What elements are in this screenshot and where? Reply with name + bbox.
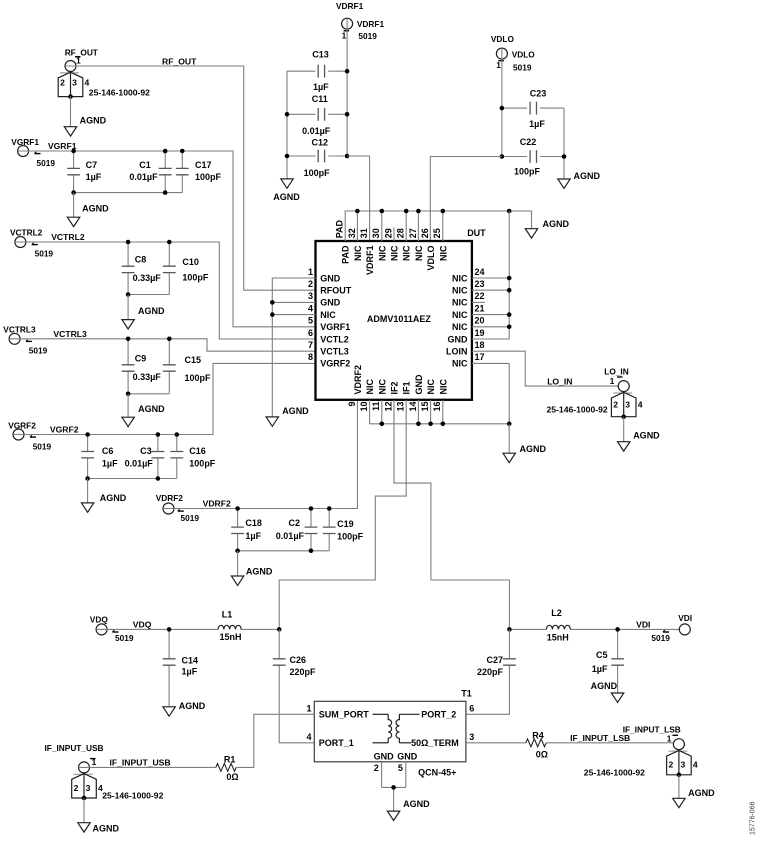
svg-text:VDLO: VDLO — [512, 50, 536, 60]
svg-text:VCTRL2: VCTRL2 — [10, 227, 43, 237]
svg-text:C11: C11 — [312, 94, 328, 104]
svg-text:C10: C10 — [182, 257, 199, 267]
ground AGND (VCTRL3 rail) — [122, 417, 134, 426]
svg-text:2: 2 — [60, 78, 65, 88]
svg-text:NIC: NIC — [426, 379, 436, 395]
svg-text:6: 6 — [308, 328, 313, 338]
capacitor C9 — [122, 365, 135, 371]
wire pin 14 stub — [417, 400, 419, 424]
svg-text:VCTRL2: VCTRL2 — [51, 232, 85, 242]
svg-text:0.01µF: 0.01µF — [125, 458, 154, 468]
svg-text:10: 10 — [359, 402, 369, 412]
wire VDLO gnd rail — [563, 108, 565, 179]
resistor R1 0ohm — [216, 764, 236, 772]
ground AGND (RF_OUT) — [64, 127, 76, 136]
wire net IF1 from pin 13 — [279, 400, 406, 629]
svg-text:NIC: NIC — [452, 359, 468, 369]
svg-text:5019: 5019 — [33, 442, 52, 452]
svg-text:5019: 5019 — [651, 633, 670, 643]
svg-text:NIC: NIC — [438, 379, 448, 395]
test point VDQ (5019) — [96, 624, 107, 635]
svg-text:3: 3 — [469, 732, 474, 742]
svg-text:AGND: AGND — [80, 115, 107, 125]
svg-text:0.01µF: 0.01µF — [302, 126, 331, 136]
svg-text:4: 4 — [693, 760, 698, 770]
capacitor C14 — [163, 659, 176, 665]
svg-text:VDLO: VDLO — [426, 246, 436, 271]
svg-text:L1: L1 — [222, 610, 233, 620]
junctions top bus — [355, 209, 511, 214]
svg-text:C5: C5 — [596, 650, 608, 660]
wire pin 4 NIC tie — [272, 314, 315, 316]
op-amp U1 DUT ADMV1011AEZ body — [316, 241, 472, 400]
svg-text:26: 26 — [420, 228, 430, 238]
svg-text:5019: 5019 — [37, 158, 56, 168]
svg-text:5: 5 — [308, 316, 313, 326]
ground AGND (IF_INPUT_USB) — [78, 823, 90, 832]
svg-text:VGRF2: VGRF2 — [50, 425, 79, 435]
svg-text:IF2: IF2 — [390, 381, 400, 394]
svg-text:GND: GND — [320, 273, 341, 283]
svg-text:5019: 5019 — [35, 249, 54, 259]
svg-text:C17: C17 — [195, 160, 212, 170]
svg-text:C8: C8 — [135, 255, 147, 265]
svg-text:19: 19 — [475, 328, 485, 338]
wire to AGND — [127, 394, 129, 417]
svg-text:AGND: AGND — [543, 219, 570, 229]
svg-text:AGND: AGND — [520, 444, 547, 454]
junctions VCTRL2 row — [126, 240, 172, 297]
svg-text:50Ω_TERM: 50Ω_TERM — [411, 738, 459, 748]
svg-text:1µF: 1µF — [529, 119, 545, 129]
wire VDLO to pin 26 — [430, 157, 502, 242]
wire VCTRL3 gnd rail — [128, 393, 169, 395]
svg-text:C16: C16 — [189, 446, 206, 456]
ground AGND (VDLO rail) — [558, 179, 570, 188]
wire shield to AGND — [83, 798, 85, 822]
svg-text:3: 3 — [86, 783, 91, 793]
ground AGND (top bus) — [525, 229, 537, 238]
wire to AGND — [87, 479, 89, 503]
svg-text:NIC: NIC — [452, 273, 468, 283]
wire C10 leads — [168, 242, 170, 295]
svg-text:NIC: NIC — [414, 245, 424, 261]
svg-text:20: 20 — [475, 316, 485, 326]
capacitor C18 — [231, 527, 244, 533]
svg-text:VDRF2: VDRF2 — [353, 365, 363, 395]
test point VDI (5019) — [679, 624, 690, 635]
svg-text:24: 24 — [475, 267, 485, 277]
wire C13 leads — [287, 70, 347, 72]
svg-text:NIC: NIC — [353, 245, 363, 261]
connector IF_INPUT_USB body — [72, 774, 97, 801]
wire net IF_INPUT_LSB — [546, 742, 674, 744]
svg-text:2: 2 — [74, 783, 79, 793]
svg-text:15nH: 15nH — [219, 632, 241, 642]
connector IF_INPUT_USB 25-146-1000-92 — [79, 762, 90, 773]
svg-text:PORT_2: PORT_2 — [421, 709, 456, 719]
wire bottom NIC bus — [370, 400, 510, 424]
svg-text:12: 12 — [383, 402, 393, 412]
svg-text:VDRF1: VDRF1 — [357, 19, 385, 29]
junctions VCTRL3 row — [126, 337, 172, 397]
inductor L1 15nH — [218, 625, 241, 629]
capacitor C8 — [122, 266, 135, 272]
resistor R4 0ohm — [526, 739, 546, 747]
svg-text:21: 21 — [475, 303, 485, 313]
ground AGND (VGRF2 rail) — [81, 503, 93, 512]
wire C15 leads — [168, 339, 170, 394]
wire pin 17 NIC to bottom bus — [472, 363, 509, 423]
wire net IF2 from pin 12 — [394, 400, 509, 629]
svg-text:9: 9 — [347, 402, 357, 407]
wire C12 leads — [287, 155, 347, 157]
capacitor C23 — [530, 102, 536, 115]
svg-text:AGND: AGND — [591, 681, 618, 691]
svg-text:1µF: 1µF — [245, 531, 261, 541]
wire C2 leads — [310, 509, 312, 551]
svg-text:100pF: 100pF — [337, 531, 364, 541]
wire C14 leads — [168, 629, 170, 706]
svg-text:NIC: NIC — [365, 379, 375, 395]
svg-text:C2: C2 — [288, 518, 300, 528]
ground AGND (IF_INPUT_LSB) — [673, 798, 685, 807]
svg-text:NIC: NIC — [320, 310, 336, 320]
wire VDRF2 gnd rail — [238, 550, 330, 552]
capacitor C15 — [163, 365, 176, 371]
junctions VDRF2 row — [235, 506, 331, 553]
svg-text:0.01µF: 0.01µF — [129, 172, 158, 182]
svg-text:C13: C13 — [312, 50, 329, 60]
svg-text:VDRF1: VDRF1 — [336, 1, 364, 11]
wire C26 to PORT_1 — [279, 629, 314, 742]
ground AGND (VDRF2 rail) — [231, 576, 243, 585]
svg-text:1µF: 1µF — [592, 664, 608, 674]
svg-text:AGND: AGND — [246, 567, 273, 577]
svg-text:IF_INPUT_LSB: IF_INPUT_LSB — [623, 724, 681, 734]
svg-text:RF_OUT: RF_OUT — [162, 56, 197, 66]
svg-text:220pF: 220pF — [290, 667, 317, 677]
svg-text:220pF: 220pF — [477, 667, 504, 677]
svg-text:AGND: AGND — [138, 404, 165, 414]
coil T1 right — [396, 714, 399, 743]
test point VCTRL2 (5019) — [15, 237, 26, 248]
wire pin 23 — [472, 289, 509, 291]
svg-text:32: 32 — [347, 228, 357, 238]
wire C5 leads — [617, 629, 619, 693]
svg-text:VDQ: VDQ — [133, 620, 152, 630]
svg-text:VDI: VDI — [678, 613, 692, 623]
coil T1 left — [388, 714, 391, 743]
svg-text:NIC: NIC — [402, 245, 412, 261]
svg-text:3: 3 — [72, 78, 77, 88]
svg-text:NIC: NIC — [452, 286, 468, 296]
wire net VDRF2 to pin 9 — [163, 400, 357, 509]
svg-text:R4: R4 — [532, 730, 544, 740]
svg-text:100pF: 100pF — [195, 172, 222, 182]
svg-text:5: 5 — [398, 763, 403, 773]
svg-text:C22: C22 — [520, 137, 537, 147]
ground AGND (VCTRL2 rail) — [122, 320, 134, 329]
svg-text:1µF: 1µF — [313, 82, 329, 92]
svg-text:0.33µF: 0.33µF — [133, 372, 162, 382]
capacitor C26 — [273, 659, 286, 665]
svg-text:C27: C27 — [486, 655, 503, 665]
svg-text:25: 25 — [432, 228, 442, 238]
wire C22 leads — [502, 156, 564, 158]
svg-text:31: 31 — [359, 228, 369, 238]
wire net VGRF2 to pin 8 — [13, 363, 315, 434]
wire pin 27 stub — [417, 211, 419, 241]
svg-text:T1: T1 — [461, 689, 472, 699]
svg-text:AGND: AGND — [633, 431, 660, 441]
svg-text:VDRF2: VDRF2 — [156, 493, 184, 503]
svg-text:15776-066: 15776-066 — [750, 801, 757, 835]
junctions GND rail — [270, 300, 275, 317]
wire C18 leads — [237, 509, 239, 551]
svg-text:VCTL3: VCTL3 — [320, 347, 349, 357]
capacitor C5 — [611, 659, 624, 665]
capacitor C22 — [530, 150, 536, 163]
svg-text:IF_INPUT_USB: IF_INPUT_USB — [45, 743, 104, 753]
test point VCTRL3 (5019) — [9, 333, 20, 344]
wire top NIC bus to AGND — [345, 211, 531, 241]
svg-text:NIC: NIC — [377, 379, 387, 395]
svg-text:1µF: 1µF — [182, 666, 198, 676]
wire C16 leads — [176, 435, 178, 479]
junctions VDQ rail — [167, 627, 282, 632]
svg-text:C3: C3 — [140, 446, 152, 456]
ground AGND (VDRF1 rail) — [281, 179, 293, 188]
connector RF_OUT body — [58, 72, 83, 99]
ground AGND (C5) — [611, 693, 623, 702]
wire to AGND — [508, 424, 510, 453]
test point VDRF2 (5019) — [163, 503, 174, 514]
svg-text:GND: GND — [448, 334, 469, 344]
svg-text:1: 1 — [342, 30, 347, 40]
svg-text:ADMV1011AEZ: ADMV1011AEZ — [367, 314, 432, 324]
svg-text:14: 14 — [408, 402, 418, 412]
svg-text:28: 28 — [396, 228, 406, 238]
svg-text:100pF: 100pF — [514, 167, 541, 177]
svg-text:1µF: 1µF — [102, 458, 118, 468]
wire T1 GND pins to AGND — [382, 762, 406, 811]
connector LO_IN 25-146-1000-92 — [618, 381, 629, 392]
wire RF_OUT shield to AGND — [70, 97, 72, 127]
capacitor C7 — [67, 168, 80, 174]
capacitor C11 — [318, 108, 324, 121]
winding T1 primary — [373, 713, 389, 715]
wire net RF_OUT to pin 2 — [65, 66, 315, 290]
junctions right bus — [507, 276, 512, 329]
capacitor C1 — [159, 168, 172, 174]
wire right NIC bus — [472, 211, 509, 339]
wire pin 3 GND — [272, 301, 315, 303]
svg-text:IF_INPUT_USB: IF_INPUT_USB — [110, 758, 171, 768]
svg-text:R1: R1 — [224, 755, 236, 765]
svg-text:4: 4 — [308, 303, 313, 313]
transformer T1 QCN-45+ body — [314, 701, 466, 762]
wire net VDI rail — [509, 628, 679, 630]
svg-text:2: 2 — [308, 279, 313, 289]
wire pin 30 stub — [381, 211, 383, 241]
svg-text:VDLO: VDLO — [491, 34, 515, 44]
svg-text:AGND: AGND — [273, 192, 300, 202]
svg-text:AGND: AGND — [138, 306, 165, 316]
wire to AGND — [73, 193, 75, 218]
svg-text:AGND: AGND — [93, 824, 120, 834]
svg-text:C6: C6 — [102, 446, 114, 456]
svg-text:4: 4 — [306, 732, 311, 742]
svg-text:25-146-1000-92: 25-146-1000-92 — [102, 791, 163, 801]
svg-text:NIC: NIC — [452, 322, 468, 332]
svg-text:NIC: NIC — [390, 245, 400, 261]
svg-text:C23: C23 — [530, 89, 547, 99]
svg-text:30: 30 — [371, 228, 381, 238]
wire net VGRF1 to pin 5 — [18, 151, 316, 327]
svg-text:RFOUT: RFOUT — [320, 286, 351, 296]
wire pin 20 — [472, 326, 509, 328]
svg-text:VDRF1: VDRF1 — [365, 246, 375, 276]
wire to AGND — [127, 295, 129, 320]
svg-text:IF1: IF1 — [402, 381, 412, 394]
svg-text:AGND: AGND — [82, 204, 109, 214]
svg-text:VGRF2: VGRF2 — [320, 359, 350, 369]
svg-text:C14: C14 — [182, 656, 199, 666]
svg-text:100pF: 100pF — [189, 458, 216, 468]
inductor L2 15nH — [546, 625, 570, 629]
wire C19 leads — [328, 509, 330, 551]
svg-text:C9: C9 — [135, 354, 147, 364]
wire VCTRL2 gnd rail — [128, 294, 169, 296]
svg-text:VCTRL3: VCTRL3 — [53, 329, 87, 339]
svg-text:IF_INPUT_LSB: IF_INPUT_LSB — [570, 733, 630, 743]
wire to AGND — [237, 551, 239, 576]
wire pin 29 stub (open) — [393, 228, 395, 242]
svg-text:3: 3 — [625, 400, 630, 410]
svg-text:2: 2 — [613, 400, 618, 410]
svg-text:VCTRL3: VCTRL3 — [3, 324, 36, 334]
junctions bottom bus — [380, 422, 512, 427]
wire net VDQ rail — [96, 628, 279, 630]
svg-text:AGND: AGND — [100, 493, 127, 503]
svg-text:5019: 5019 — [29, 346, 48, 356]
capacitor C2 — [305, 527, 318, 533]
svg-text:C18: C18 — [245, 518, 262, 528]
svg-text:L2: L2 — [551, 608, 562, 618]
capacitor C17 — [176, 168, 189, 174]
svg-text:SUM_PORT: SUM_PORT — [319, 709, 370, 719]
svg-text:3: 3 — [681, 760, 686, 770]
junctions VGRF2 row — [85, 432, 179, 481]
svg-text:4: 4 — [638, 400, 643, 410]
wire VGRF2 gnd rail — [88, 478, 177, 480]
svg-text:VGRF1: VGRF1 — [11, 137, 39, 147]
ground AGND (bottom bus) — [503, 453, 515, 462]
wire C23 leads — [502, 107, 564, 109]
test point VGRF2 (5019) — [13, 429, 24, 440]
svg-text:VDRF2: VDRF2 — [203, 499, 231, 509]
wire 50ohm_TERM to R4 — [466, 742, 526, 744]
connector RF_OUT 25-146-1000-92 — [65, 61, 76, 72]
capacitor C27 — [503, 659, 516, 665]
svg-text:8: 8 — [308, 352, 313, 362]
wire net VCTRL3 to pin 7 — [9, 339, 315, 351]
capacitor C10 — [163, 266, 176, 272]
wire C6 leads — [87, 435, 89, 479]
svg-text:11: 11 — [371, 402, 381, 412]
svg-text:5019: 5019 — [513, 62, 532, 72]
svg-text:100pF: 100pF — [182, 273, 209, 283]
svg-text:AGND: AGND — [403, 799, 430, 809]
capacitor C3 — [152, 452, 165, 458]
svg-text:C26: C26 — [290, 655, 307, 665]
svg-text:PAD: PAD — [335, 219, 345, 238]
svg-text:4: 4 — [85, 78, 90, 88]
svg-text:2: 2 — [669, 760, 674, 770]
svg-text:15: 15 — [420, 402, 430, 412]
svg-text:QCN-45+: QCN-45+ — [418, 767, 456, 777]
svg-text:1: 1 — [306, 703, 311, 713]
wire C1 leads — [164, 151, 166, 193]
wire C27 to PORT_2 — [466, 629, 510, 714]
wire pin 1 GND rail — [272, 278, 315, 417]
svg-text:25-146-1000-92: 25-146-1000-92 — [547, 404, 608, 414]
wire C8 leads — [127, 242, 129, 295]
junctions VDLO column — [500, 106, 567, 159]
svg-text:C7: C7 — [86, 160, 98, 170]
svg-text:1: 1 — [667, 734, 672, 744]
svg-text:VDQ: VDQ — [90, 615, 109, 625]
wire net IF_INPUT_USB to R1 — [79, 766, 216, 768]
wire VDRF1 node — [346, 18, 348, 156]
svg-text:GND: GND — [397, 752, 418, 762]
wire VDLO node — [501, 48, 503, 156]
svg-text:C1: C1 — [139, 160, 151, 170]
wire C11 leads — [287, 113, 347, 115]
wire pin 28 stub — [405, 211, 407, 241]
svg-text:16: 16 — [432, 402, 442, 412]
svg-text:22: 22 — [475, 291, 485, 301]
svg-text:RF_OUT: RF_OUT — [65, 48, 98, 58]
capacitor C6 — [81, 452, 94, 458]
svg-text:GND: GND — [414, 374, 424, 395]
svg-text:25-146-1000-92: 25-146-1000-92 — [584, 768, 645, 778]
wire net LO_IN from pin 18 — [472, 351, 619, 386]
svg-text:NIC: NIC — [438, 245, 448, 261]
svg-text:GND: GND — [320, 298, 341, 308]
svg-text:15nH: 15nH — [547, 633, 569, 643]
ground AGND (C14) — [163, 707, 175, 716]
wire R1 to SUM_PORT — [236, 714, 314, 767]
junctions VDI rail — [507, 627, 620, 632]
svg-text:3: 3 — [308, 291, 313, 301]
wire pin 25 stub — [442, 211, 444, 241]
capacitor C12 — [318, 150, 324, 163]
wire VDRF1 gnd rail — [286, 71, 288, 179]
svg-text:NIC: NIC — [452, 298, 468, 308]
wire C9 leads — [127, 339, 129, 394]
svg-text:18: 18 — [475, 340, 485, 350]
wire pin 21 — [472, 314, 509, 316]
wire C17 leads — [181, 151, 183, 193]
svg-text:VDI: VDI — [636, 620, 650, 630]
svg-text:5019: 5019 — [181, 513, 200, 523]
junction T1 gnd — [391, 785, 396, 790]
wire LO_IN shield to AGND — [623, 417, 625, 442]
wire net VCTRL2 to pin 6 — [15, 242, 316, 339]
svg-text:1: 1 — [610, 376, 615, 386]
